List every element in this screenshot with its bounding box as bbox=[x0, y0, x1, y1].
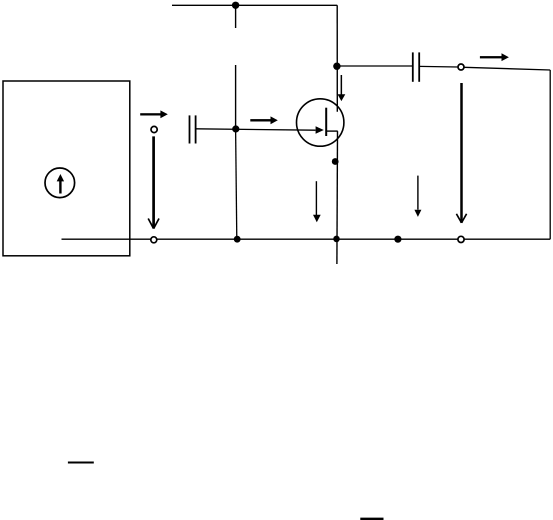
arrow input current (right) bbox=[140, 110, 168, 118]
node ground rail right junction bbox=[394, 236, 401, 243]
wire top supply rail bbox=[172, 4, 337, 6]
transistor Q1 base bar bbox=[325, 108, 327, 136]
terminal input top (open circle) bbox=[151, 126, 157, 132]
capacitor C1 right plate bbox=[195, 115, 197, 143]
wire gate bbox=[196, 129, 316, 130]
arrow output voltage (down, thick with V head) bbox=[456, 83, 466, 223]
wire broken drain-resistor branch upper segment bbox=[235, 5, 237, 28]
fraction bar lower left bbox=[68, 462, 94, 464]
arrow load branch current (down) bbox=[414, 176, 421, 217]
transistor Q1 collector stub bbox=[326, 130, 338, 132]
transistor Q1 circle bbox=[297, 99, 344, 146]
current source up arrow bbox=[57, 174, 64, 194]
signal source box bbox=[3, 81, 130, 256]
wire capacitor C2 to output terminal bbox=[419, 65, 458, 68]
node top rail junction bbox=[232, 2, 239, 9]
wire broken drain-resistor branch lower segment bbox=[235, 65, 237, 129]
terminal output bottom (open circle) bbox=[458, 236, 464, 242]
terminal output top (open circle) bbox=[458, 64, 464, 70]
node drain bbox=[333, 62, 340, 69]
arrow output current (right) bbox=[480, 53, 509, 61]
wire output terminal to right edge bbox=[464, 67, 550, 70]
wire right vertical load branch bbox=[549, 70, 551, 239]
wire drain node to output capacitor bbox=[337, 65, 412, 67]
capacitor C1 left plate bbox=[189, 115, 191, 143]
terminal input bottom (open circle) bbox=[151, 237, 157, 243]
node ground rail center junction bbox=[333, 236, 340, 243]
current source I1 circle bbox=[45, 168, 75, 198]
capacitor C2 right plate bbox=[418, 52, 420, 81]
node source bbox=[332, 158, 339, 165]
fraction bar bottom center bbox=[360, 518, 383, 520]
transistor Q1 emitter arrowhead bbox=[316, 126, 324, 133]
capacitor C2 left plate bbox=[412, 52, 414, 81]
arrow drain current (down small) bbox=[338, 75, 346, 101]
node ground rail left junction bbox=[234, 236, 241, 243]
wire gate junction down to ground rail bbox=[236, 129, 237, 239]
arrow input voltage (down, thick with V head) bbox=[148, 136, 159, 228]
node gate junction bbox=[232, 125, 239, 132]
wire bottom ground rail bbox=[62, 238, 551, 240]
arrow gate current (right) bbox=[250, 116, 277, 124]
wire drain branch vertical from top rail bbox=[336, 5, 338, 111]
wire source branch below transistor bbox=[336, 131, 339, 264]
arrow source branch current (down) bbox=[313, 181, 321, 222]
